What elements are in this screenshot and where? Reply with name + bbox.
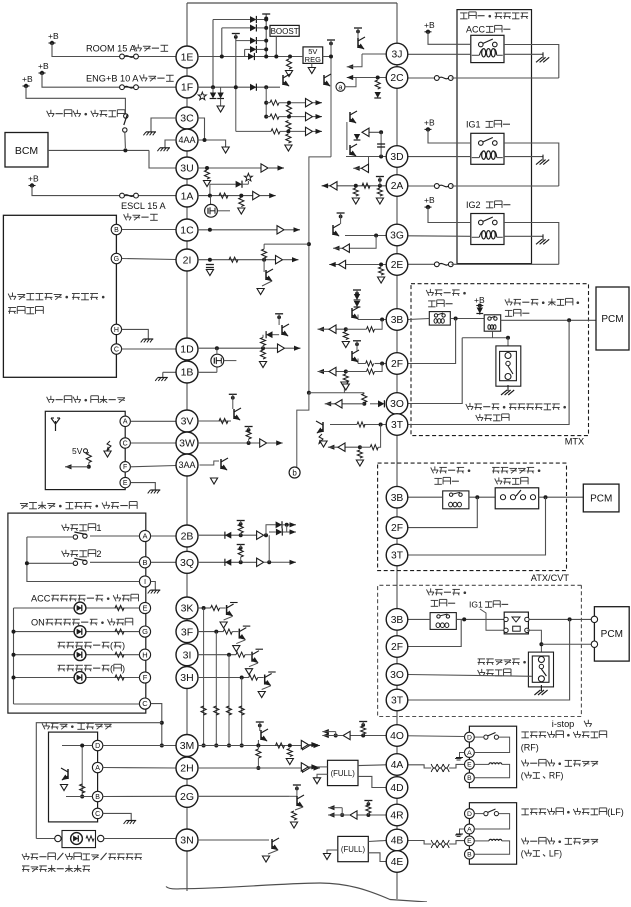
svg-text:+B: +B (474, 295, 485, 305)
svg-text:3B: 3B (391, 315, 404, 326)
svg-text:2H: 2H (180, 763, 193, 775)
svg-text:F: F (143, 673, 148, 682)
svg-text:IG1: IG1 (466, 120, 481, 130)
svg-text:C: C (142, 699, 148, 708)
svg-text:3B: 3B (391, 493, 404, 504)
svg-text:1: 1 (96, 523, 101, 533)
svg-text:E: E (467, 838, 472, 845)
svg-text:3AA: 3AA (178, 460, 195, 470)
svg-text:3N: 3N (180, 835, 193, 847)
svg-text:B: B (467, 852, 472, 859)
svg-text:(RF): (RF) (521, 743, 539, 753)
svg-text:): ) (122, 664, 125, 674)
svg-text:+B: +B (424, 117, 435, 127)
svg-text:4E: 4E (391, 857, 404, 868)
svg-text:BCM: BCM (15, 145, 38, 157)
svg-text:4A: 4A (391, 760, 404, 771)
svg-text:PCM: PCM (590, 494, 612, 505)
svg-text:3T: 3T (391, 420, 404, 431)
svg-text:3Q: 3Q (180, 557, 194, 569)
svg-text:3H: 3H (180, 672, 193, 684)
svg-text:B: B (467, 775, 472, 782)
svg-text:3W: 3W (179, 438, 195, 450)
svg-text:A: A (95, 765, 100, 772)
svg-text:A: A (142, 532, 147, 541)
svg-text:ROOM 15 A: ROOM 15 A (86, 44, 136, 54)
svg-text:MTX: MTX (565, 437, 584, 447)
svg-text:3O: 3O (390, 670, 404, 681)
svg-text:E: E (123, 480, 128, 487)
svg-text:i-stop: i-stop (552, 719, 575, 729)
svg-text:3I: 3I (183, 649, 192, 661)
svg-text:3D: 3D (390, 152, 403, 163)
svg-text:I: I (144, 577, 146, 586)
svg-text:D: D (467, 734, 472, 741)
svg-text:2: 2 (96, 549, 101, 559)
svg-text:2A: 2A (391, 181, 404, 192)
svg-text:1D: 1D (180, 344, 194, 356)
svg-text:2C: 2C (390, 73, 404, 84)
svg-text:C: C (95, 811, 100, 818)
svg-text:3T: 3T (391, 551, 404, 562)
svg-text:E: E (142, 604, 147, 613)
svg-text:ENG+B 10 A: ENG+B 10 A (86, 74, 139, 84)
svg-text:2F: 2F (391, 523, 403, 534)
svg-text:IG1: IG1 (469, 600, 483, 610)
svg-text:+B: +B (38, 61, 49, 71)
svg-text:4D: 4D (390, 783, 403, 794)
svg-text:1B: 1B (181, 367, 194, 379)
svg-text:PCM: PCM (601, 629, 623, 640)
svg-text:B: B (142, 558, 147, 567)
svg-text:H: H (142, 650, 147, 659)
svg-text:3M: 3M (180, 740, 195, 752)
svg-text:1C: 1C (180, 225, 194, 237)
svg-text:ACC: ACC (31, 594, 51, 604)
svg-text:4B: 4B (391, 836, 404, 847)
svg-text:D: D (467, 811, 472, 818)
svg-text:G: G (114, 256, 119, 263)
svg-text:+B: +B (22, 74, 33, 84)
svg-text:C: C (123, 440, 128, 447)
svg-text:F: F (123, 464, 127, 471)
svg-text:4O: 4O (390, 731, 404, 742)
svg-text:3G: 3G (390, 231, 404, 242)
svg-text:(FULL): (FULL) (341, 845, 366, 854)
svg-text:REG: REG (305, 55, 321, 64)
svg-text:ON: ON (31, 618, 45, 628)
svg-text:B: B (95, 794, 100, 801)
svg-text:2E: 2E (391, 260, 404, 271)
svg-text:(: ( (521, 849, 524, 859)
svg-text:3O: 3O (390, 399, 404, 410)
svg-text:3T: 3T (391, 696, 404, 707)
svg-text:2F: 2F (391, 642, 403, 653)
svg-text:ATX/CVT: ATX/CVT (531, 573, 570, 583)
svg-text:ACC: ACC (466, 25, 486, 35)
svg-text:3B: 3B (391, 615, 404, 626)
svg-text:2I: 2I (183, 255, 192, 267)
svg-text:IG2: IG2 (466, 200, 481, 210)
svg-text:+B: +B (28, 174, 39, 184)
svg-text:3K: 3K (181, 603, 194, 615)
svg-text:2F: 2F (391, 359, 403, 370)
svg-text:A: A (123, 419, 128, 426)
svg-text:4R: 4R (390, 811, 403, 822)
svg-text:G: G (142, 627, 148, 636)
svg-text:1F: 1F (181, 82, 193, 94)
svg-text:1E: 1E (181, 52, 194, 64)
svg-text:4AA: 4AA (178, 135, 195, 145)
svg-text:RF): RF) (549, 771, 564, 781)
svg-text:): ) (122, 641, 125, 651)
svg-text:2G: 2G (180, 791, 194, 803)
svg-text:E: E (467, 762, 472, 769)
svg-text:3F: 3F (181, 626, 193, 638)
svg-text:3V: 3V (181, 416, 194, 428)
svg-text:b: b (292, 469, 297, 478)
svg-text:(LF): (LF) (607, 807, 624, 817)
svg-text:(FULL): (FULL) (331, 769, 356, 778)
svg-text:(: ( (521, 771, 524, 781)
svg-text:PCM: PCM (601, 314, 623, 325)
svg-text:B: B (114, 227, 119, 234)
svg-text:LF): LF) (549, 849, 562, 859)
svg-text:3U: 3U (180, 163, 193, 175)
svg-text:1A: 1A (181, 191, 194, 203)
svg-text:+B: +B (424, 195, 435, 205)
svg-text:ESCL 15 A: ESCL 15 A (121, 201, 167, 211)
svg-text:+B: +B (424, 20, 435, 30)
svg-text:A: A (467, 750, 472, 757)
svg-text:3J: 3J (392, 50, 403, 61)
svg-text:BOOST: BOOST (271, 27, 299, 36)
svg-text:D: D (95, 743, 100, 750)
svg-text:5V: 5V (72, 446, 83, 456)
svg-text:H: H (114, 327, 119, 334)
svg-text:+B: +B (48, 31, 59, 41)
svg-text:C: C (114, 346, 119, 353)
svg-text:3C: 3C (180, 113, 194, 125)
svg-text:A: A (467, 826, 472, 833)
svg-text:2B: 2B (181, 531, 194, 543)
